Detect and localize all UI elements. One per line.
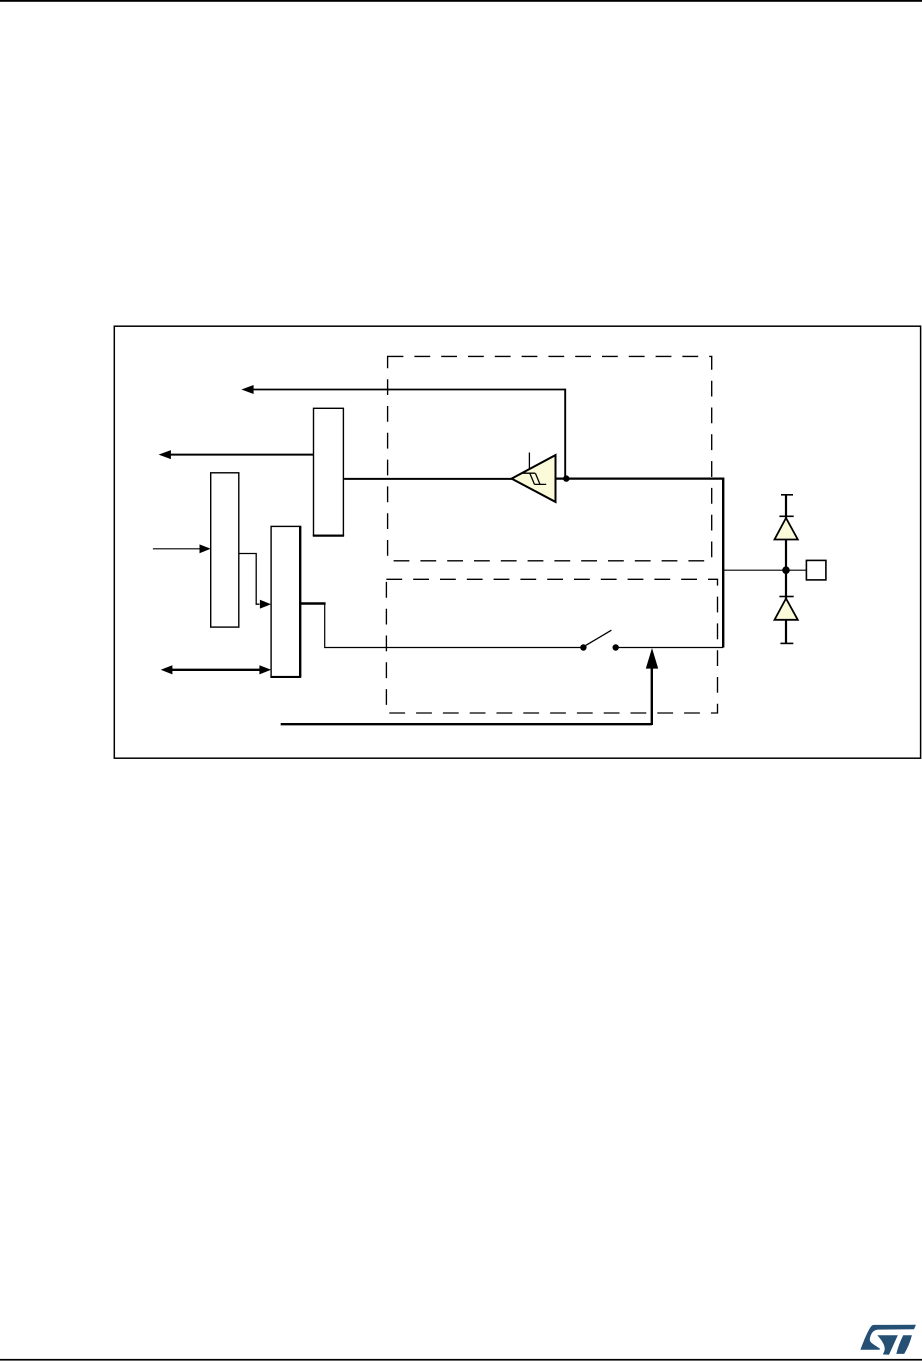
wire: alternate function input (top arrow) [253,389,565,391]
switch lever [586,630,612,645]
wire: right vertical bus down to switch [722,478,724,648]
dashed box: pull-up/pull-down (lower) [386,579,717,713]
wire: input into write block [153,548,200,550]
block right heavy edge [299,526,301,678]
diode stem [785,495,787,644]
wire: register to schmitt trigger input [344,478,512,480]
diode D1 cathode bar [779,515,793,517]
block: write register (left) [211,473,239,627]
block: read/write register [271,526,300,676]
wire: schmitt output to right bus [556,478,724,480]
diode D2 triangle [775,599,798,620]
I/O pad square [806,560,826,580]
wire: to on-chip peripheral (second arrow) [170,454,314,456]
diode D1 (to VDD): top rail bar [781,494,793,496]
wire: step connector write block to read block [239,554,259,605]
figure frame [114,326,920,758]
block bottom heavy edge [313,535,344,537]
schmitt trigger U1 [512,455,556,502]
wire: read block to switch rail [300,604,583,648]
dashed box: input driver (upper) [388,356,712,560]
wire: pad line to protection node [723,569,806,571]
wire: control line with up arrow [281,723,652,725]
wire: vertical from top arrow to schmitt output node [564,389,566,479]
wire: bidirectional data bus (double arrow) [172,669,260,671]
diode D1 triangle [775,518,798,540]
block: input data register [314,408,344,535]
page bottom rule [0,1359,922,1361]
switch SW1: pole dot [580,644,586,650]
switch throw dot [613,644,619,650]
ST logo: S lower stroke [877,1335,898,1354]
schmitt trigger top tick [528,453,530,470]
node: schmitt output junction [563,475,569,481]
diode D2 (to VSS) cathode bar [779,596,793,598]
bottom rail bar [780,642,793,644]
node: protection junction [782,566,790,574]
block bottom heavy edge [270,676,300,678]
heavy stub at read block output [300,602,325,604]
wire: switch to right bus [616,647,724,649]
ST logo: S swoosh [860,1325,916,1350]
page top rule [0,0,922,2]
ST logo: T stem [896,1335,912,1354]
hysteresis symbol [523,473,546,484]
